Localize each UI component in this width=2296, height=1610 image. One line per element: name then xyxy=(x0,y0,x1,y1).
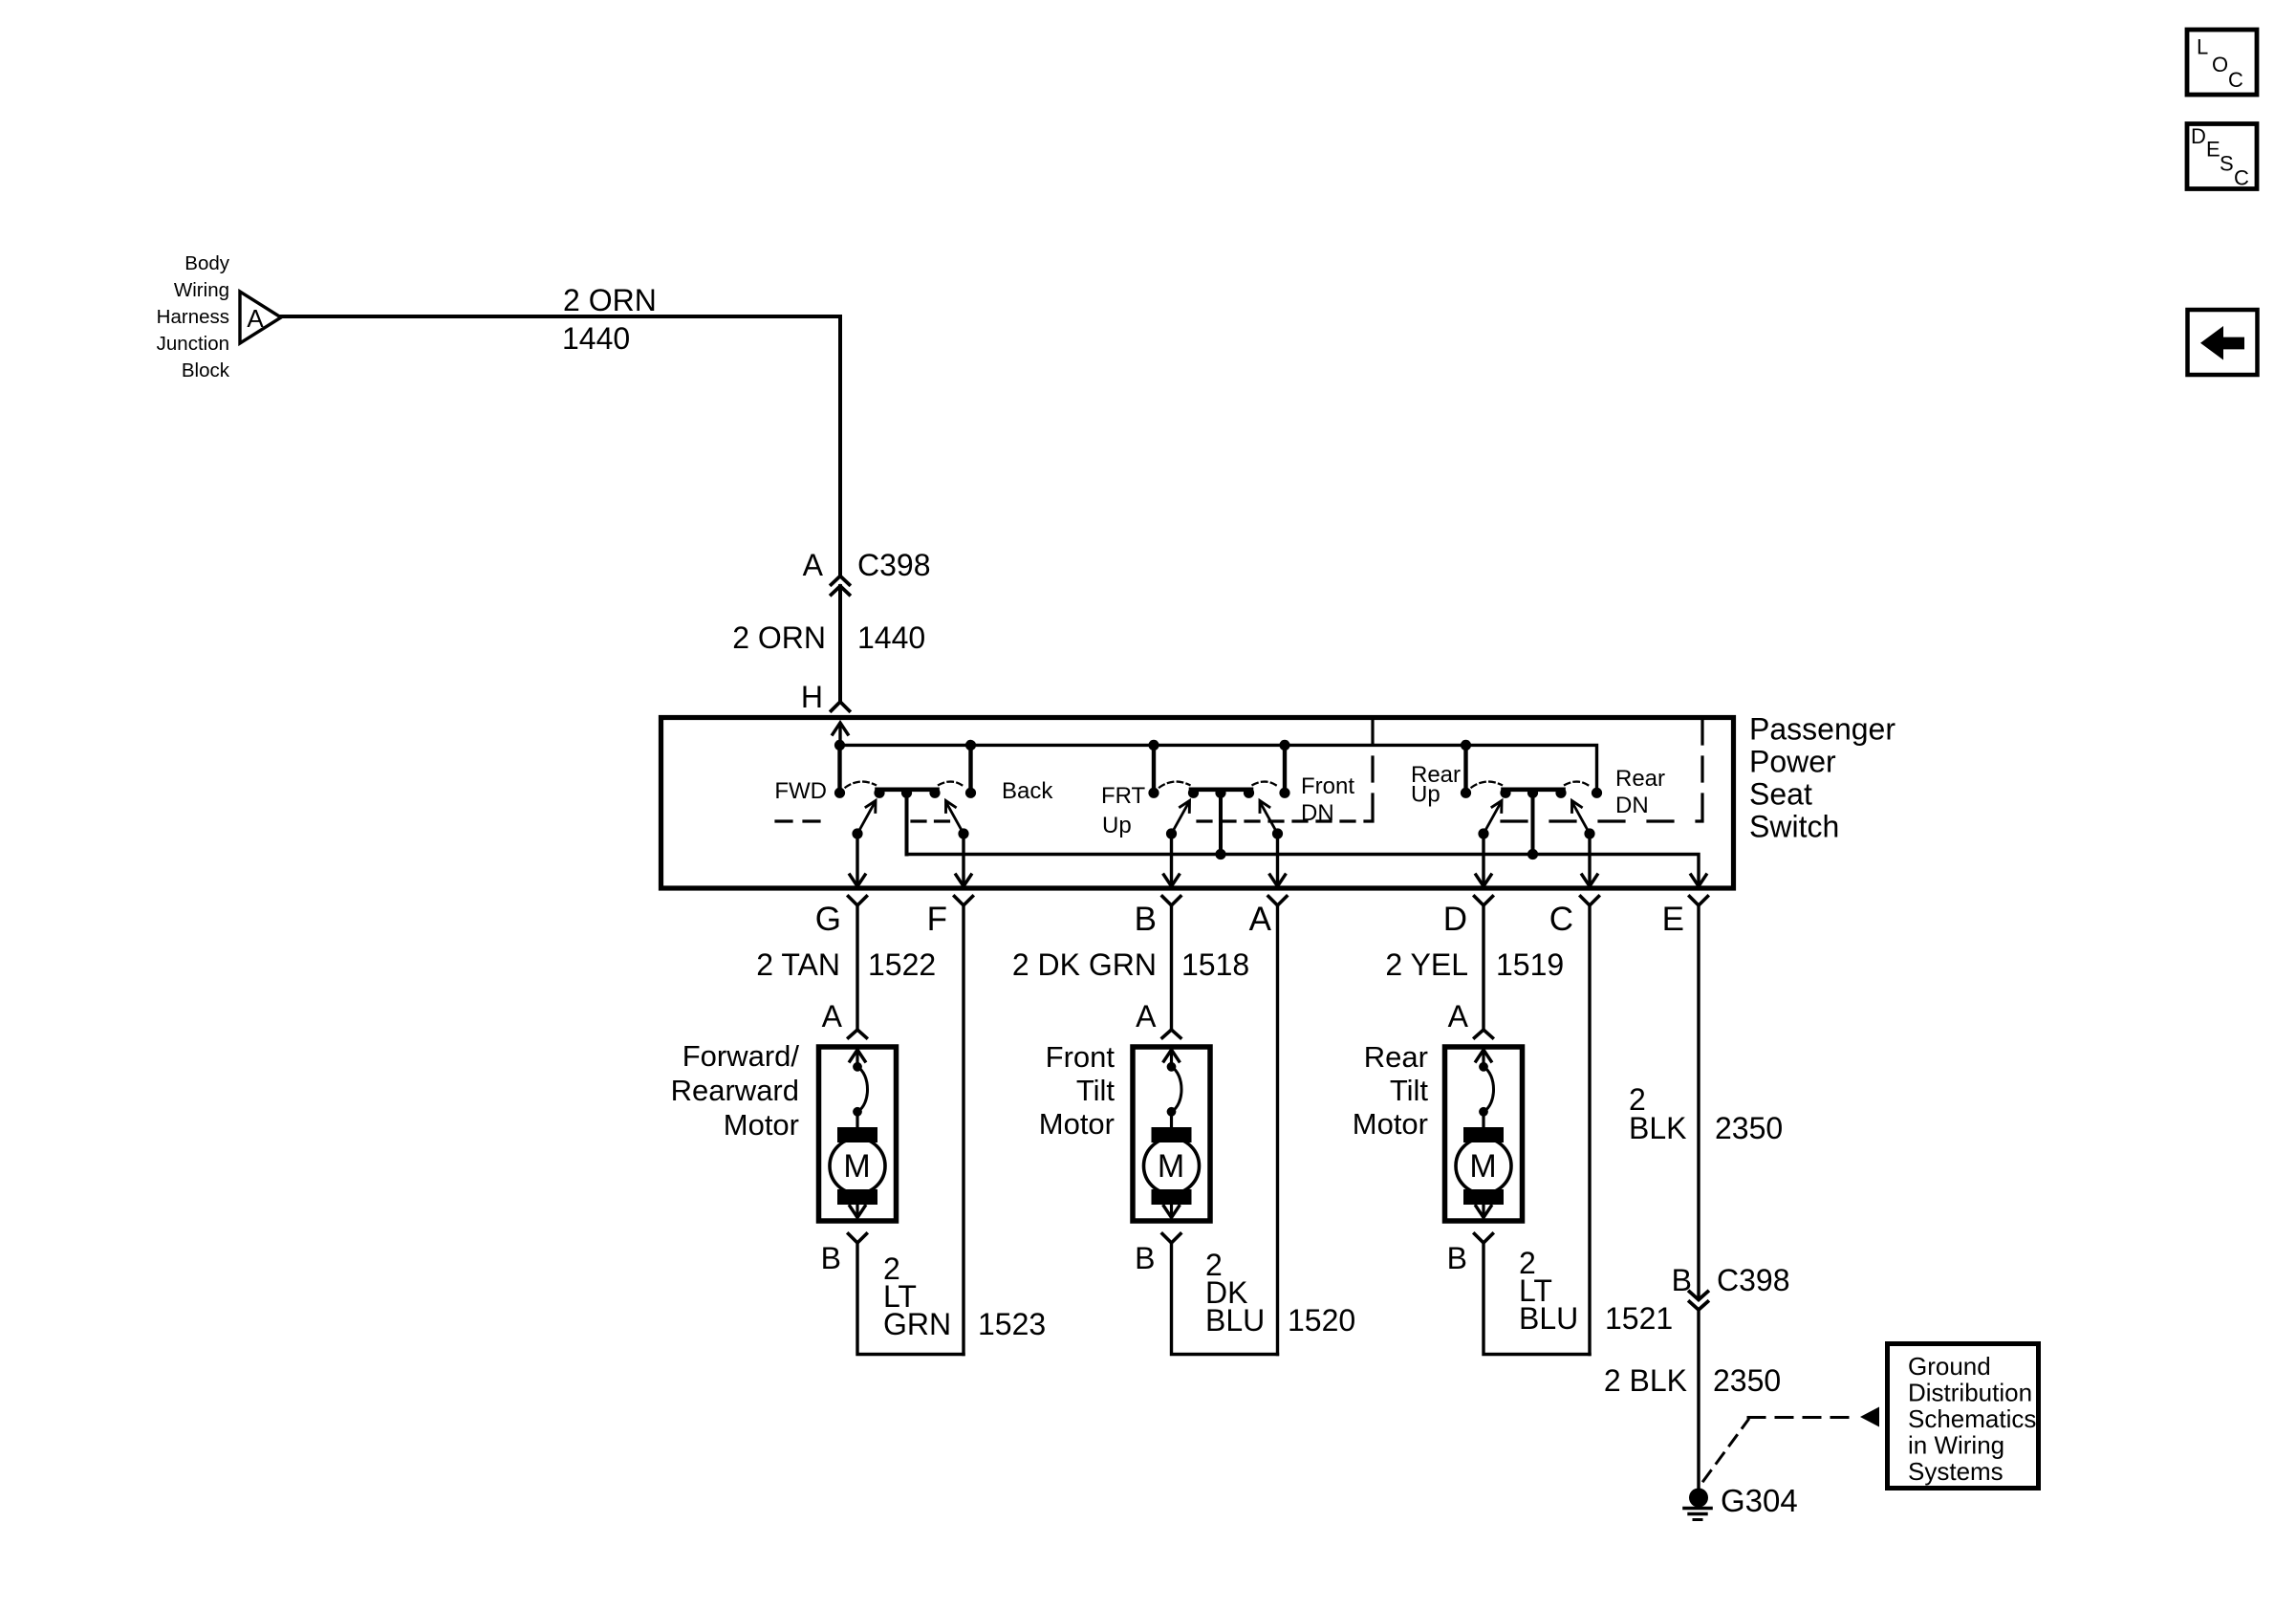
svg-text:2350: 2350 xyxy=(1715,1111,1783,1145)
svg-text:Up: Up xyxy=(1411,782,1440,808)
svg-text:M: M xyxy=(1158,1148,1184,1185)
svg-text:C398: C398 xyxy=(857,548,931,582)
svg-text:FWD: FWD xyxy=(774,778,827,804)
svg-text:D: D xyxy=(1443,901,1467,938)
svg-text:Body: Body xyxy=(184,252,229,274)
svg-text:Front: Front xyxy=(1301,773,1354,799)
svg-text:2 ORN: 2 ORN xyxy=(563,283,657,317)
svg-text:Wiring: Wiring xyxy=(174,279,229,301)
svg-text:B: B xyxy=(1447,1241,1467,1275)
svg-text:M: M xyxy=(1469,1148,1496,1185)
svg-text:1518: 1518 xyxy=(1181,947,1249,982)
svg-text:Motor: Motor xyxy=(724,1108,799,1142)
svg-text:Motor: Motor xyxy=(1039,1107,1115,1141)
svg-text:C: C xyxy=(2234,166,2249,190)
svg-text:1520: 1520 xyxy=(1288,1303,1355,1338)
svg-text:Harness: Harness xyxy=(157,306,229,328)
svg-text:Motor: Motor xyxy=(1353,1107,1428,1141)
svg-text:2 DK GRN: 2 DK GRN xyxy=(1012,947,1157,982)
svg-text:B: B xyxy=(1135,1241,1155,1275)
svg-text:Back: Back xyxy=(1002,778,1053,804)
svg-text:S: S xyxy=(2220,152,2234,176)
svg-text:M: M xyxy=(843,1148,870,1185)
svg-text:Schematics: Schematics xyxy=(1908,1404,2036,1433)
svg-text:Block: Block xyxy=(182,359,230,381)
svg-text:H: H xyxy=(801,680,823,714)
svg-text:A: A xyxy=(1448,999,1469,1033)
svg-text:Up: Up xyxy=(1102,813,1132,838)
svg-text:2350: 2350 xyxy=(1713,1363,1781,1398)
svg-text:Ground: Ground xyxy=(1908,1352,1991,1381)
svg-text:A: A xyxy=(1136,999,1157,1033)
svg-text:D: D xyxy=(2191,124,2206,148)
svg-text:A: A xyxy=(803,548,824,582)
svg-text:Seat: Seat xyxy=(1749,777,1812,812)
svg-text:Rearward: Rearward xyxy=(671,1074,799,1107)
svg-text:L: L xyxy=(2197,35,2208,59)
svg-text:Passenger: Passenger xyxy=(1749,712,1895,747)
svg-text:Switch: Switch xyxy=(1749,810,1839,844)
svg-text:2 BLK: 2 BLK xyxy=(1604,1363,1687,1398)
svg-text:A: A xyxy=(1249,901,1272,938)
svg-text:O: O xyxy=(2212,53,2228,76)
svg-text:C: C xyxy=(1549,901,1573,938)
svg-text:Systems: Systems xyxy=(1908,1457,2004,1486)
svg-text:G304: G304 xyxy=(1721,1483,1798,1518)
svg-text:Rear: Rear xyxy=(1615,766,1665,792)
svg-text:Forward/: Forward/ xyxy=(682,1039,800,1073)
svg-text:1519: 1519 xyxy=(1496,947,1564,982)
svg-text:BLU: BLU xyxy=(1519,1301,1578,1336)
svg-text:Power: Power xyxy=(1749,745,1836,779)
svg-text:FRT: FRT xyxy=(1101,783,1146,809)
svg-text:B: B xyxy=(1672,1263,1692,1297)
svg-text:B: B xyxy=(821,1241,841,1275)
svg-text:Junction: Junction xyxy=(157,333,229,355)
svg-text:C398: C398 xyxy=(1717,1263,1790,1297)
svg-text:in Wiring: in Wiring xyxy=(1908,1431,2004,1460)
svg-text:A: A xyxy=(247,304,264,333)
svg-text:Tilt: Tilt xyxy=(1076,1074,1116,1107)
svg-text:BLU: BLU xyxy=(1205,1303,1265,1338)
svg-text:DN: DN xyxy=(1301,800,1334,826)
svg-text:Distribution: Distribution xyxy=(1908,1379,2032,1407)
svg-text:G: G xyxy=(815,901,841,938)
svg-text:E: E xyxy=(2206,138,2220,162)
svg-text:BLK: BLK xyxy=(1629,1111,1686,1145)
svg-text:GRN: GRN xyxy=(883,1307,951,1341)
svg-text:2 YEL: 2 YEL xyxy=(1385,947,1468,982)
svg-text:A: A xyxy=(822,999,843,1033)
svg-text:Front: Front xyxy=(1046,1040,1116,1074)
svg-text:Rear: Rear xyxy=(1364,1040,1428,1074)
svg-text:1523: 1523 xyxy=(978,1307,1046,1341)
svg-text:E: E xyxy=(1662,901,1684,938)
svg-text:2 ORN: 2 ORN xyxy=(732,620,826,655)
svg-text:1440: 1440 xyxy=(857,620,925,655)
svg-text:B: B xyxy=(1135,901,1157,938)
svg-text:F: F xyxy=(927,901,947,938)
svg-text:1440: 1440 xyxy=(562,321,630,356)
svg-text:1521: 1521 xyxy=(1605,1301,1673,1336)
svg-text:DN: DN xyxy=(1615,793,1649,818)
svg-text:2 TAN: 2 TAN xyxy=(756,947,840,982)
svg-text:1522: 1522 xyxy=(868,947,936,982)
svg-text:C: C xyxy=(2228,68,2243,92)
svg-text:Tilt: Tilt xyxy=(1390,1074,1429,1107)
